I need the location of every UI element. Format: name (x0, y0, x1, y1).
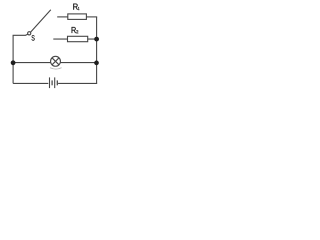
resistor R2 (68, 36, 88, 41)
wire to R1 (57, 16, 68, 18)
wire R2 to right vertical (88, 38, 97, 40)
node junction lamp left (11, 60, 16, 65)
battery cell plate short 1 (51, 80, 53, 85)
wire R1 to right vertical (86, 16, 97, 18)
lamp X1 cross (52, 58, 59, 65)
label R1 (73, 4, 79, 10)
switch S pivot circle (28, 32, 31, 35)
wire battery row right (58, 82, 97, 84)
lamp X1 circle (51, 56, 61, 66)
battery cell plate long 2 (54, 77, 56, 88)
battery cell plate long 1 (49, 77, 51, 88)
wire to R2 (53, 38, 67, 40)
wire lamp row left (13, 62, 51, 64)
wire left vertical (12, 35, 14, 83)
node junction R2 right (94, 37, 99, 42)
node junction lamp right (94, 61, 99, 66)
wire right vertical (96, 17, 98, 84)
resistor R1 (68, 14, 87, 20)
wire lamp row right (60, 62, 96, 64)
wire battery row left (13, 82, 48, 84)
label S (32, 35, 35, 40)
label R2 (72, 27, 79, 33)
lamp faint outer arc (50, 68, 62, 69)
battery cell plate short 2 (56, 80, 58, 85)
wire top-left horizontal to switch (13, 34, 28, 35)
switch S blade (31, 10, 51, 33)
